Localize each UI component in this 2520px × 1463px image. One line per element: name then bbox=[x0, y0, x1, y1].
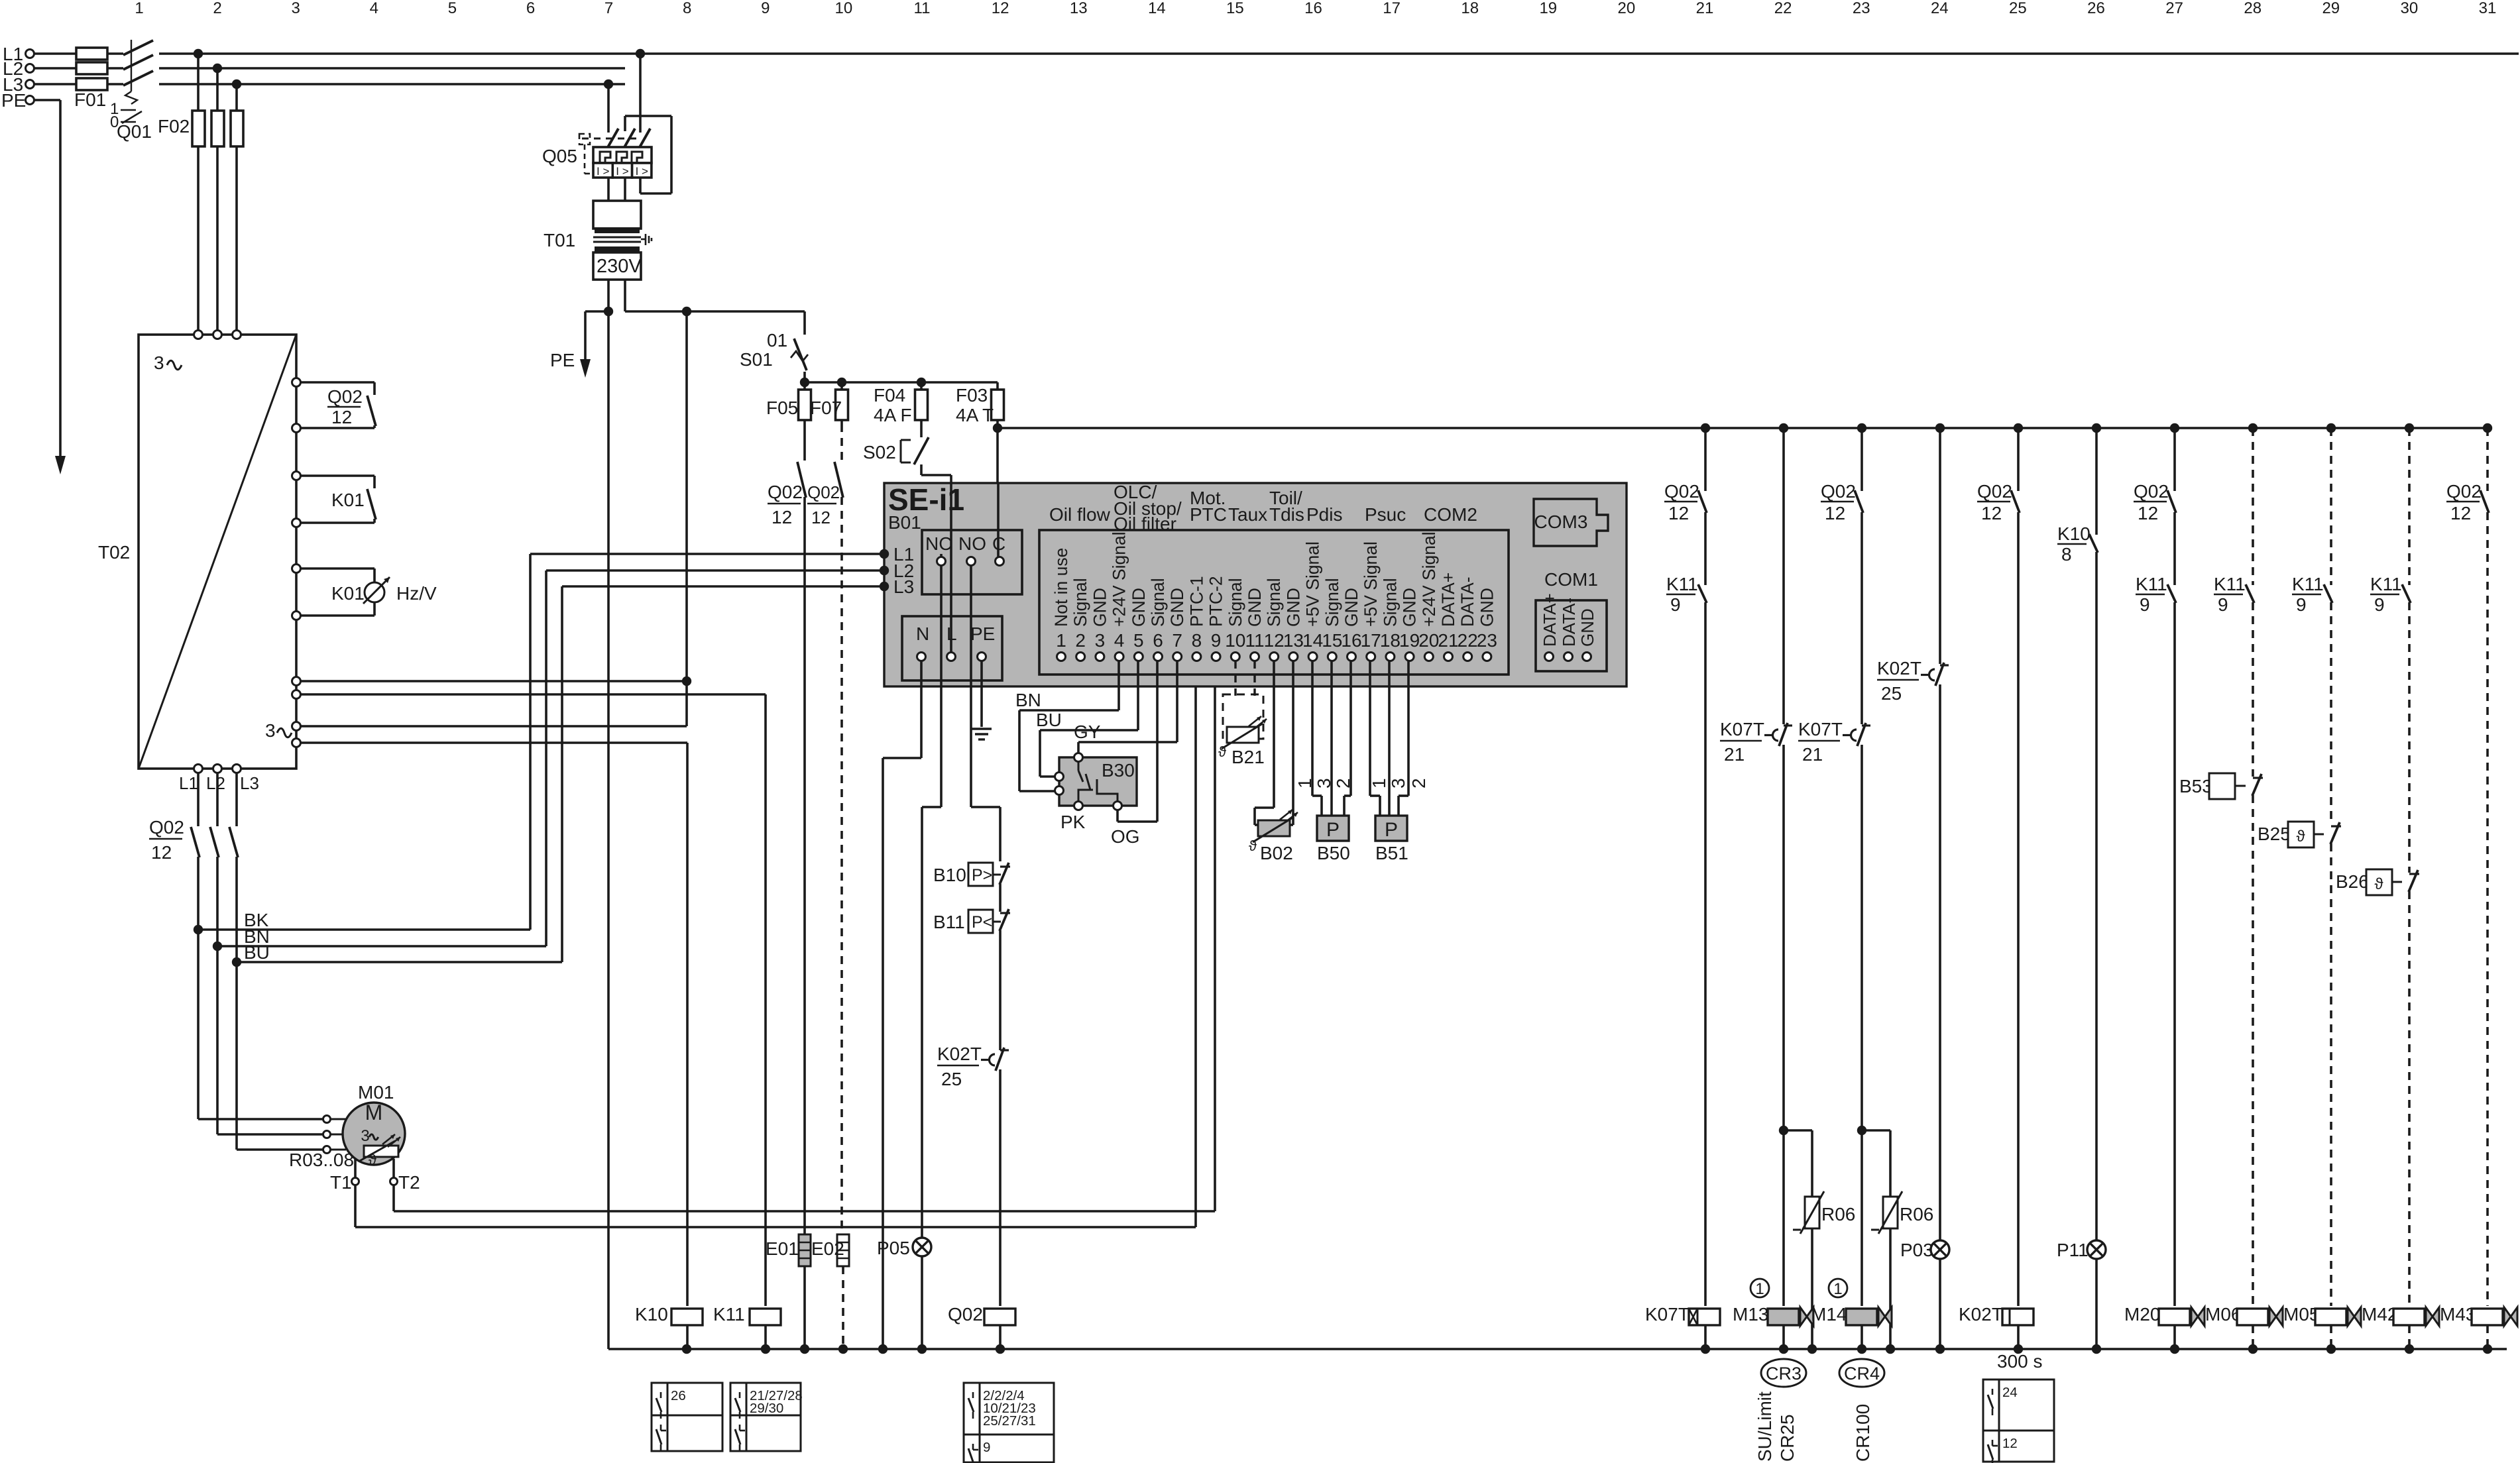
svg-text:28: 28 bbox=[2244, 0, 2262, 17]
svg-text:Pdis: Pdis bbox=[1306, 504, 1342, 525]
sensor B21 optional bbox=[1234, 661, 1236, 696]
svg-text:Psuc: Psuc bbox=[1365, 504, 1406, 525]
wire to PE arrow bbox=[585, 310, 608, 313]
wire F05-E01 bbox=[803, 497, 806, 1234]
svg-text:B53: B53 bbox=[2179, 776, 2212, 796]
svg-text:1: 1 bbox=[1294, 778, 1315, 788]
svg-text:31: 31 bbox=[2479, 0, 2497, 17]
svg-text:20: 20 bbox=[1618, 0, 1636, 17]
svg-text:Q05: Q05 bbox=[542, 146, 577, 166]
SE-i1 relay box NC NO C bbox=[922, 530, 1022, 594]
svg-text:5: 5 bbox=[1133, 630, 1144, 651]
svg-text:M06: M06 bbox=[2205, 1304, 2241, 1325]
svg-text:Not in use: Not in use bbox=[1051, 548, 1071, 627]
wire T02 out2 to K11 bbox=[300, 693, 766, 696]
contact table K02T bbox=[1983, 1380, 2054, 1462]
svg-text:6: 6 bbox=[526, 0, 535, 17]
rung col30 wire dashed bbox=[2408, 428, 2411, 585]
svg-text:14: 14 bbox=[1148, 0, 1166, 17]
switch Q01 bbox=[123, 40, 153, 55]
fuse F02 bbox=[192, 111, 205, 146]
svg-text:9: 9 bbox=[2374, 594, 2385, 615]
junction 24V rail col29 bbox=[2326, 423, 2336, 433]
motor terminals bbox=[323, 1116, 331, 1123]
svg-text:R06: R06 bbox=[1900, 1204, 1933, 1224]
svg-text:P05: P05 bbox=[877, 1238, 910, 1258]
svg-text:F01: F01 bbox=[74, 89, 106, 110]
svg-text:12: 12 bbox=[2450, 503, 2471, 523]
svg-text:P11: P11 bbox=[2057, 1240, 2089, 1260]
svg-text:Signal: Signal bbox=[1070, 578, 1090, 627]
wire pin7 GY bbox=[1176, 661, 1178, 742]
svg-text:17: 17 bbox=[1383, 0, 1401, 17]
svg-text:GND: GND bbox=[1477, 588, 1497, 627]
T02 loop Q02/12 enable bbox=[292, 378, 301, 387]
SE-i1 L3 input bbox=[880, 582, 889, 591]
svg-text:B10: B10 bbox=[933, 865, 966, 885]
connector COM3 bbox=[1534, 499, 1608, 546]
svg-text:P<: P< bbox=[972, 913, 992, 932]
svg-text:25: 25 bbox=[2009, 0, 2027, 17]
svg-text:8: 8 bbox=[2061, 544, 2072, 565]
svg-text:26: 26 bbox=[2087, 0, 2105, 17]
wire L from S02 inside box bbox=[950, 483, 952, 652]
svg-text:CR25: CR25 bbox=[1777, 1414, 1798, 1462]
wire L1 rail bbox=[34, 52, 123, 55]
fuse F07 bbox=[840, 382, 843, 424]
svg-text:T2: T2 bbox=[398, 1172, 420, 1193]
svg-text:B50: B50 bbox=[1317, 843, 1350, 863]
svg-text:17: 17 bbox=[1361, 630, 1381, 651]
SE-i1 L2 input bbox=[880, 566, 889, 575]
svg-text:T02: T02 bbox=[98, 542, 130, 563]
wire L3 to Q05 bbox=[607, 84, 610, 133]
svg-text:3: 3 bbox=[1314, 778, 1334, 788]
svg-text:12: 12 bbox=[992, 0, 1009, 17]
svg-text:4: 4 bbox=[1114, 630, 1125, 651]
svg-text:K01: K01 bbox=[331, 490, 365, 510]
svg-text:B21: B21 bbox=[1231, 747, 1265, 767]
svg-text:DATA-: DATA- bbox=[1559, 598, 1579, 647]
svg-text:12: 12 bbox=[811, 508, 830, 527]
svg-text:M01: M01 bbox=[358, 1082, 394, 1103]
junction 24V rail col31 bbox=[2483, 423, 2492, 433]
svg-text:F07: F07 bbox=[810, 398, 842, 418]
svg-text:+5V Signal: +5V Signal bbox=[1303, 541, 1323, 627]
oil flow switch B30 bbox=[1059, 757, 1137, 806]
contact table K10 bbox=[652, 1383, 722, 1451]
svg-text:P03: P03 bbox=[1900, 1240, 1933, 1260]
rung col28 wire dashed bbox=[2252, 428, 2254, 585]
fuse F03 bbox=[996, 382, 999, 428]
junction L2-F02 bbox=[213, 64, 222, 73]
terminal L1 bbox=[26, 50, 34, 58]
svg-text:2: 2 bbox=[1333, 778, 1353, 788]
svg-text:F03: F03 bbox=[956, 385, 988, 406]
wire BU sense bbox=[237, 961, 562, 963]
terminal T2 bbox=[392, 1159, 395, 1177]
svg-text:12: 12 bbox=[1981, 503, 2002, 523]
svg-text:E02: E02 bbox=[811, 1238, 844, 1259]
svg-text:Signal: Signal bbox=[1322, 578, 1342, 627]
wire BN sense bbox=[217, 945, 546, 948]
svg-text:Q02: Q02 bbox=[768, 482, 803, 502]
svg-text:GND: GND bbox=[1400, 588, 1420, 627]
svg-text:K11: K11 bbox=[1666, 574, 1698, 594]
svg-text:21: 21 bbox=[1438, 630, 1458, 651]
svg-text:K07T: K07T bbox=[1645, 1304, 1690, 1325]
junction 24V rail col28 bbox=[2248, 423, 2258, 433]
svg-text:4A F: 4A F bbox=[874, 405, 912, 425]
terminal T1 bbox=[354, 1159, 357, 1177]
svg-text:1: 1 bbox=[1369, 778, 1389, 788]
svg-text:4A T: 4A T bbox=[956, 405, 994, 425]
switch S01 bbox=[803, 311, 806, 335]
svg-text:B51: B51 bbox=[1375, 843, 1408, 863]
svg-text:PTC-1: PTC-1 bbox=[1186, 576, 1206, 627]
svg-text:I >: I > bbox=[597, 165, 609, 178]
svg-text:M05: M05 bbox=[2283, 1304, 2319, 1325]
svg-text:5: 5 bbox=[448, 0, 457, 17]
svg-text:GND: GND bbox=[1283, 588, 1303, 627]
svg-text:25: 25 bbox=[1881, 683, 1902, 704]
svg-text:1: 1 bbox=[1833, 1280, 1842, 1298]
svg-text:22: 22 bbox=[1458, 630, 1478, 651]
svg-text:21: 21 bbox=[1724, 744, 1745, 765]
svg-text:K10: K10 bbox=[2057, 523, 2090, 544]
wire T1 to PTC-1 bbox=[354, 1185, 357, 1227]
contact table K11 bbox=[730, 1383, 801, 1451]
svg-text:300 s: 300 s bbox=[1997, 1351, 2043, 1372]
svg-text:24: 24 bbox=[2002, 1385, 2018, 1400]
svg-text:NC: NC bbox=[925, 533, 952, 554]
SE-i1 N L PE box bbox=[902, 616, 1002, 680]
svg-text:3: 3 bbox=[1388, 778, 1408, 788]
junction L3-F02 bbox=[232, 80, 241, 89]
T02 loop K01 bbox=[292, 472, 301, 480]
wire F03 down to C bbox=[993, 423, 1002, 433]
junction L1-Q05 bbox=[636, 49, 645, 58]
svg-text:Hz/V: Hz/V bbox=[396, 583, 437, 604]
fuse F01 bbox=[76, 48, 107, 60]
svg-text:12: 12 bbox=[1668, 503, 1689, 523]
svg-text:19: 19 bbox=[1399, 630, 1420, 651]
svg-text:L1: L1 bbox=[179, 773, 198, 793]
svg-text:2: 2 bbox=[1075, 630, 1086, 651]
svg-text:15: 15 bbox=[1226, 0, 1244, 17]
svg-text:19: 19 bbox=[1539, 0, 1557, 17]
svg-text:Oil flow: Oil flow bbox=[1049, 504, 1111, 525]
svg-text:GY: GY bbox=[1074, 722, 1101, 742]
svg-text:P: P bbox=[1385, 819, 1398, 841]
terminal L2 bbox=[26, 64, 34, 73]
wire PE bbox=[34, 99, 60, 101]
PE arrow 2 bbox=[580, 359, 591, 378]
junction BK bbox=[194, 925, 203, 934]
junction 24V rail col21 bbox=[1701, 423, 1710, 433]
svg-text:12: 12 bbox=[2138, 503, 2158, 523]
svg-text:9: 9 bbox=[761, 0, 770, 17]
svg-text:1: 1 bbox=[1755, 1280, 1764, 1298]
svg-text:9: 9 bbox=[1211, 630, 1222, 651]
svg-text:9: 9 bbox=[2140, 594, 2150, 615]
svg-text:GND: GND bbox=[1090, 588, 1110, 627]
svg-text:COM2: COM2 bbox=[1424, 504, 1477, 525]
svg-text:ϑ: ϑ bbox=[1218, 743, 1226, 760]
rung col26 wire bbox=[2095, 428, 2098, 535]
svg-text:23: 23 bbox=[1477, 630, 1497, 651]
svg-text:DATA-: DATA- bbox=[1458, 576, 1477, 627]
svg-text:+24V Signal: +24V Signal bbox=[1110, 531, 1129, 627]
SE-i1 L1 input bbox=[880, 549, 889, 559]
pressure transmitter B50 bbox=[1311, 661, 1314, 796]
svg-text:1: 1 bbox=[135, 0, 143, 17]
SE-i1 terminal strip box bbox=[1039, 530, 1509, 675]
svg-text:F02: F02 bbox=[158, 116, 190, 136]
rung col31 wire dashed bbox=[2486, 428, 2489, 491]
svg-text:27: 27 bbox=[2165, 0, 2183, 17]
transformer T01 bbox=[593, 201, 641, 229]
svg-text:CR100: CR100 bbox=[1853, 1404, 1873, 1462]
wire phase3 to motor bbox=[237, 1148, 323, 1151]
svg-text:Q02: Q02 bbox=[1821, 481, 1856, 502]
svg-text:R03..08: R03..08 bbox=[289, 1150, 354, 1170]
wire F07-E02 dashed bbox=[840, 497, 843, 1234]
svg-text:12: 12 bbox=[151, 842, 172, 863]
svg-text:21: 21 bbox=[1802, 744, 1823, 765]
svg-text:K02T: K02T bbox=[1877, 658, 1921, 678]
svg-text:F05: F05 bbox=[766, 398, 798, 418]
svg-text:30: 30 bbox=[2401, 0, 2419, 17]
PE earth arrow bbox=[55, 456, 66, 474]
wire Q05 pole3 bypass bbox=[639, 178, 642, 193]
wire L2 bbox=[34, 67, 123, 70]
svg-text:L3: L3 bbox=[240, 773, 259, 793]
junction L3-Q05 bbox=[604, 80, 613, 89]
svg-text:R06: R06 bbox=[1821, 1204, 1855, 1224]
rung col23 wire bbox=[1861, 428, 1863, 491]
wire NC to P05 bbox=[940, 565, 943, 807]
svg-text:DATA+: DATA+ bbox=[1438, 572, 1458, 627]
resistor R06 b bbox=[1862, 1129, 1890, 1132]
wire N to rail bbox=[920, 661, 923, 758]
svg-text:K11: K11 bbox=[713, 1304, 745, 1325]
wire PE to earth bbox=[980, 661, 983, 727]
junction R06b bbox=[1857, 1126, 1866, 1135]
relay designation CR4 bbox=[1839, 1359, 1884, 1387]
svg-text:M20: M20 bbox=[2124, 1304, 2160, 1325]
wire Q05 pole1 out bbox=[607, 178, 610, 201]
marker circled 1 M13 bbox=[1750, 1279, 1769, 1297]
svg-text:M43: M43 bbox=[2440, 1304, 2476, 1325]
svg-text:ϑ: ϑ bbox=[369, 1152, 376, 1168]
heater E02 bbox=[837, 1234, 849, 1266]
rung col22 wire bbox=[1782, 428, 1785, 724]
wire phase1 to motor bbox=[198, 1118, 323, 1120]
svg-text:PTC-2: PTC-2 bbox=[1206, 576, 1226, 627]
svg-text:25/27/31: 25/27/31 bbox=[983, 1413, 1036, 1429]
wire NO to chain bbox=[970, 565, 972, 807]
svg-text:K11: K11 bbox=[2136, 574, 2167, 594]
wire T02 out1 bbox=[300, 680, 687, 682]
junction 24V rail col26 bbox=[2092, 423, 2101, 433]
svg-text:B30: B30 bbox=[1102, 760, 1135, 781]
svg-text:14: 14 bbox=[1302, 630, 1323, 651]
svg-text:4: 4 bbox=[370, 0, 378, 17]
wire Q05 pole2 out bbox=[624, 178, 626, 201]
svg-text:230V: 230V bbox=[597, 256, 642, 277]
svg-text:NO: NO bbox=[958, 533, 986, 554]
svg-text:Signal: Signal bbox=[1148, 578, 1168, 627]
svg-text:12: 12 bbox=[772, 507, 792, 527]
wire pin6 OG bbox=[1156, 661, 1159, 822]
wire BK sense bbox=[198, 928, 530, 931]
svg-text:Q02: Q02 bbox=[149, 817, 184, 838]
svg-text:12: 12 bbox=[2002, 1436, 2018, 1451]
svg-text:Signal: Signal bbox=[1264, 578, 1284, 627]
svg-text:PE: PE bbox=[550, 350, 575, 370]
svg-text:I >: I > bbox=[616, 165, 628, 178]
svg-text:GND: GND bbox=[1129, 588, 1149, 627]
junction F07 bbox=[837, 378, 846, 387]
wire L3 bbox=[34, 83, 123, 85]
svg-text:S01: S01 bbox=[740, 349, 773, 370]
svg-text:Oil filter: Oil filter bbox=[1114, 514, 1176, 534]
svg-text:Q02: Q02 bbox=[1977, 481, 2012, 502]
svg-text:PK: PK bbox=[1060, 812, 1086, 832]
svg-text:9: 9 bbox=[2296, 594, 2307, 615]
wire T2 to PTC-2 bbox=[392, 1185, 395, 1211]
junction R06a bbox=[1779, 1126, 1788, 1135]
svg-text:21: 21 bbox=[1696, 0, 1714, 17]
svg-text:PE: PE bbox=[1, 90, 26, 111]
wire 24V supply rail bbox=[998, 427, 2490, 429]
svg-text:E01: E01 bbox=[766, 1238, 799, 1259]
svg-text:+5V Signal: +5V Signal bbox=[1361, 541, 1381, 627]
heater E01 bbox=[799, 1234, 811, 1266]
svg-text:N: N bbox=[916, 623, 929, 644]
svg-text:K02T: K02T bbox=[1959, 1304, 2003, 1325]
svg-text:15: 15 bbox=[1322, 630, 1342, 651]
wire pin5 BU bbox=[1137, 661, 1139, 730]
wire S02 to L bbox=[920, 464, 923, 475]
svg-text:COM3: COM3 bbox=[1534, 512, 1588, 532]
svg-text:12: 12 bbox=[1825, 503, 1845, 523]
svg-text:B01: B01 bbox=[888, 512, 921, 533]
svg-text:Q02: Q02 bbox=[948, 1304, 983, 1325]
svg-text:BU: BU bbox=[244, 942, 270, 963]
rung col27 wire bbox=[2173, 428, 2176, 491]
svg-text:ϑ: ϑ bbox=[2296, 828, 2305, 845]
wire F02 phase 2 bbox=[216, 68, 219, 331]
svg-text:18: 18 bbox=[1461, 0, 1479, 17]
junction 24V rail col27 bbox=[2170, 423, 2179, 433]
breaker Q05 bbox=[607, 129, 618, 148]
T02 output terminals bbox=[194, 765, 203, 773]
svg-text:16: 16 bbox=[1341, 630, 1361, 651]
T02 loop K01 Hz/V meter bbox=[292, 565, 301, 573]
svg-text:01: 01 bbox=[767, 330, 787, 351]
svg-text:Q01: Q01 bbox=[117, 121, 152, 142]
svg-text:T1: T1 bbox=[330, 1172, 352, 1193]
svg-text:10: 10 bbox=[835, 0, 853, 17]
svg-text:B11: B11 bbox=[933, 912, 965, 932]
svg-text:+24V Signal: +24V Signal bbox=[1419, 531, 1439, 627]
svg-text:9: 9 bbox=[1670, 594, 1681, 615]
svg-text:20: 20 bbox=[1418, 630, 1439, 651]
pressure transmitter B51 bbox=[1369, 661, 1371, 796]
svg-text:1: 1 bbox=[1056, 630, 1066, 651]
svg-text:BN: BN bbox=[1015, 690, 1041, 710]
junction F05 bbox=[800, 378, 809, 387]
svg-text:B26: B26 bbox=[2336, 871, 2369, 892]
svg-text:12: 12 bbox=[1264, 630, 1285, 651]
svg-text:P>: P> bbox=[972, 866, 992, 885]
frequency inverter T02 bbox=[139, 335, 296, 769]
rung col21 wire bbox=[1704, 428, 1707, 491]
svg-text:B25: B25 bbox=[2258, 824, 2291, 844]
svg-text:DATA+: DATA+ bbox=[1540, 593, 1560, 647]
resistor R06 a bbox=[1784, 1129, 1812, 1132]
svg-text:7: 7 bbox=[604, 0, 613, 17]
svg-text:26: 26 bbox=[671, 1388, 686, 1403]
wire T01 sec left bbox=[607, 280, 610, 311]
svg-text:3: 3 bbox=[154, 352, 164, 373]
junction 24V rail col24 bbox=[1935, 423, 1945, 433]
wire L1 to Q05 bbox=[639, 54, 642, 133]
junction 24V rail col22 bbox=[1779, 423, 1788, 433]
wire NC stub bbox=[940, 554, 943, 557]
junction F04 bbox=[917, 378, 926, 387]
wire T01 sec right / L 230V bbox=[624, 280, 626, 311]
svg-text:29/30: 29/30 bbox=[750, 1401, 783, 1416]
svg-text:B02: B02 bbox=[1260, 843, 1293, 863]
svg-text:K02T: K02T bbox=[937, 1044, 982, 1064]
svg-text:GND: GND bbox=[1245, 588, 1265, 627]
svg-text:ϑ: ϑ bbox=[1249, 838, 1257, 854]
svg-text:Q02: Q02 bbox=[327, 386, 363, 407]
svg-text:12: 12 bbox=[331, 407, 352, 427]
wire F02 phase 1 bbox=[197, 54, 200, 331]
rung col29 wire dashed bbox=[2330, 428, 2332, 585]
svg-text:25: 25 bbox=[941, 1069, 962, 1089]
svg-text:Q02: Q02 bbox=[2134, 481, 2169, 502]
svg-text:M13: M13 bbox=[1733, 1304, 1768, 1325]
svg-text:13: 13 bbox=[1283, 630, 1304, 651]
junction 24V rail col25 bbox=[2014, 423, 2023, 433]
T02 analog outputs bbox=[292, 677, 301, 686]
junction BN bbox=[213, 942, 222, 951]
svg-text:8: 8 bbox=[683, 0, 691, 17]
svg-text:OG: OG bbox=[1111, 826, 1140, 847]
svg-text:18: 18 bbox=[1380, 630, 1401, 651]
contact table Q02 bbox=[964, 1383, 1054, 1462]
svg-text:P: P bbox=[1326, 819, 1340, 841]
svg-text:GND: GND bbox=[1342, 588, 1361, 627]
wire C from F03 inside box bbox=[997, 483, 1000, 557]
svg-text:BU: BU bbox=[1036, 710, 1062, 730]
svg-text:GND: GND bbox=[1577, 608, 1597, 647]
svg-text:K11: K11 bbox=[2370, 574, 2402, 594]
rung col24 wire bbox=[1939, 428, 1941, 664]
wire T02 out4 to K10 bbox=[300, 741, 687, 744]
svg-text:Signal: Signal bbox=[1380, 578, 1400, 627]
svg-text:M: M bbox=[365, 1101, 383, 1124]
svg-text:23: 23 bbox=[1853, 0, 1870, 17]
svg-text:K11: K11 bbox=[2292, 574, 2324, 594]
svg-text:29: 29 bbox=[2322, 0, 2340, 17]
svg-text:M42: M42 bbox=[2362, 1304, 2397, 1325]
